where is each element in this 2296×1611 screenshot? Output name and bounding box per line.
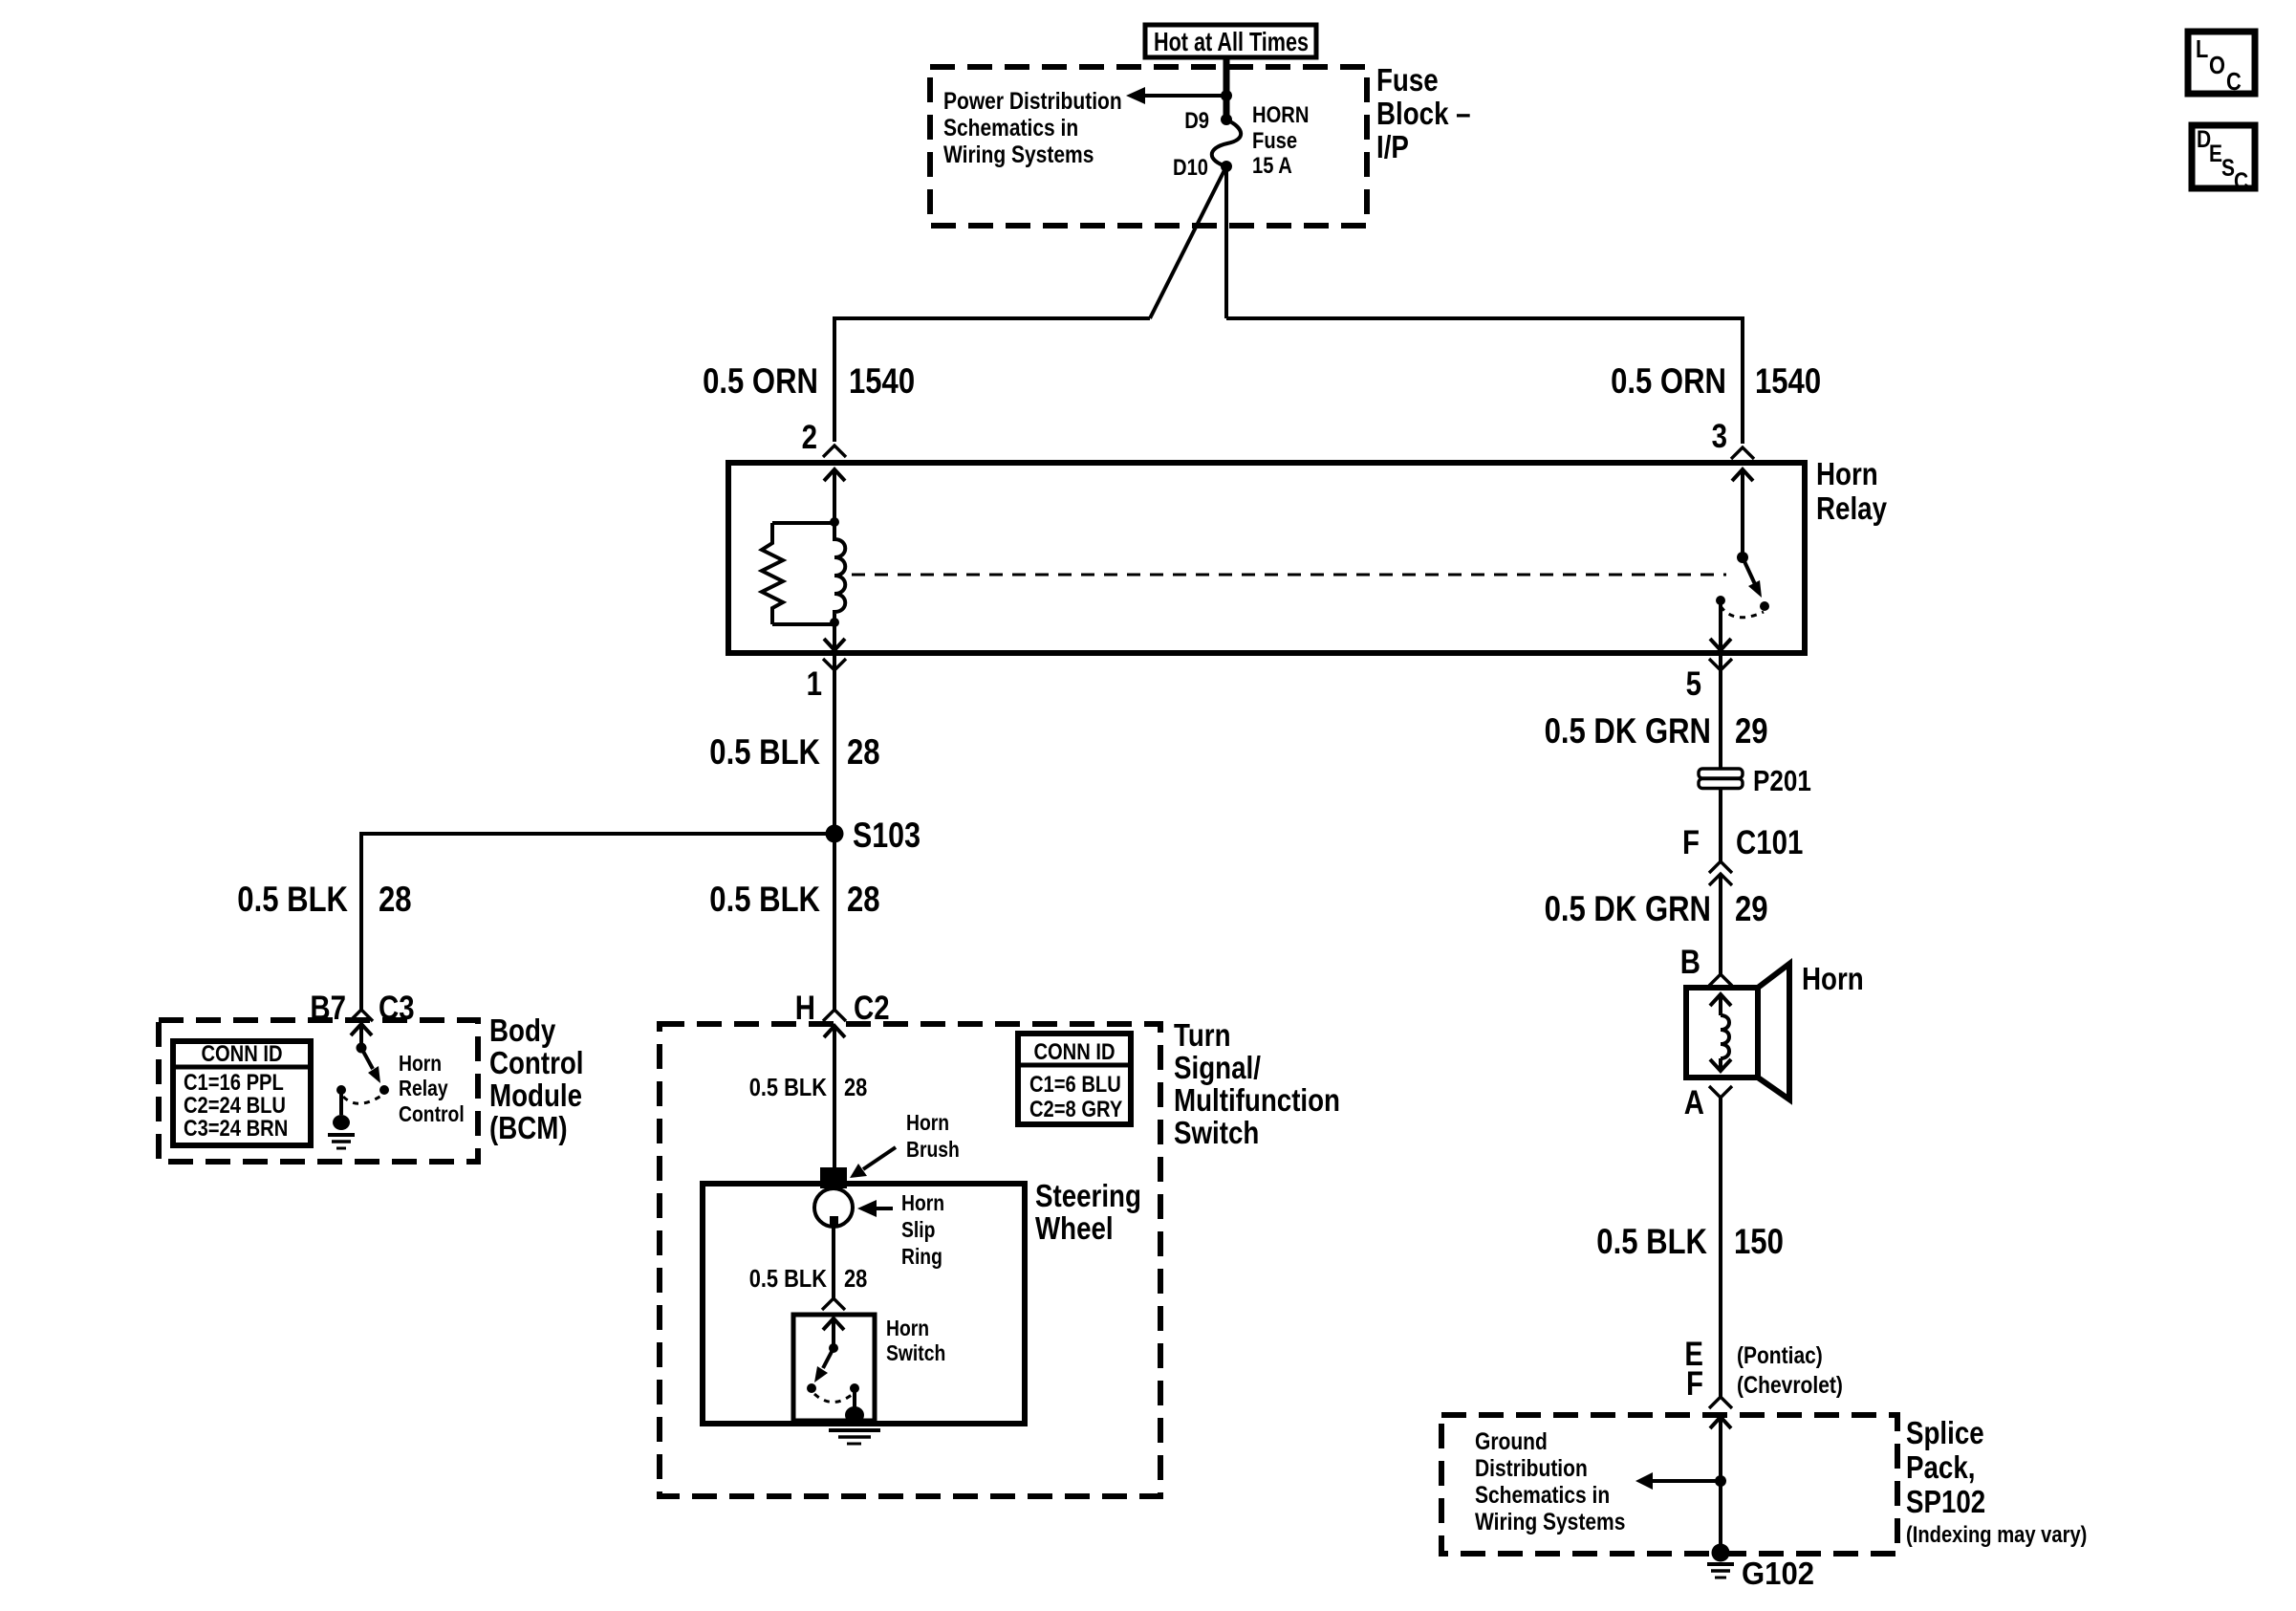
wire label 0.5 BLK 28 (BCM branch) xyxy=(237,880,411,919)
label Turn Signal Multifunction Switch xyxy=(1174,1017,1340,1150)
relay actuation dashed link xyxy=(852,574,1726,577)
value label HORN Fuse 15 A xyxy=(1252,102,1309,179)
svg-text:A: A xyxy=(1684,1084,1704,1121)
svg-text:Distribution: Distribution xyxy=(1475,1455,1588,1482)
svg-text:Signal/: Signal/ xyxy=(1174,1050,1261,1085)
svg-text:S: S xyxy=(2221,155,2235,182)
horn switch input arrow (up) xyxy=(823,1318,844,1348)
wire P201 to C101 xyxy=(1719,790,1722,861)
node relay switch arm contact xyxy=(1760,601,1769,611)
svg-text:Ground: Ground xyxy=(1475,1428,1548,1455)
relay switch terminal arrow (pin 3, up) xyxy=(1732,469,1753,557)
svg-text:(BCM): (BCM) xyxy=(489,1110,568,1145)
annotation arrow to horn brush xyxy=(850,1147,896,1178)
svg-text:Wiring Systems: Wiring Systems xyxy=(1475,1509,1625,1535)
resistor (relay coil suppression) xyxy=(762,523,783,624)
svg-text:28: 28 xyxy=(847,880,880,919)
svg-text:5: 5 xyxy=(1686,665,1701,703)
svg-text:Horn: Horn xyxy=(1802,961,1864,996)
wire to ground distribution (arrow left) xyxy=(1635,1472,1721,1490)
svg-text:150: 150 xyxy=(1734,1222,1784,1261)
svg-text:Multifunction: Multifunction xyxy=(1174,1082,1340,1118)
svg-text:S103: S103 xyxy=(853,816,921,855)
BCM switch rest-position dashed arc xyxy=(343,1096,381,1103)
wire relay pin 5 down to P201 xyxy=(1719,653,1722,770)
svg-text:Switch: Switch xyxy=(886,1340,945,1365)
label Power Distribution Schematics in Wiring Systems xyxy=(943,88,1122,168)
wire slip ring to horn switch xyxy=(832,1227,835,1300)
node relay switch fixed contact xyxy=(1716,596,1725,605)
node horn switch pivot xyxy=(829,1343,838,1353)
LOC reference box xyxy=(2188,32,2255,96)
svg-text:0.5 ORN: 0.5 ORN xyxy=(703,361,818,401)
relay switch movable arm xyxy=(1743,557,1762,598)
wire to power distribution (arrow left) xyxy=(1126,87,1226,104)
fuse HORN Fuse 15 A (S-curve element) xyxy=(1212,120,1241,166)
node horn switch fixed contact xyxy=(850,1383,859,1393)
svg-text:D10: D10 xyxy=(1173,155,1208,181)
svg-text:I/P: I/P xyxy=(1376,129,1409,164)
wire label 0.5 DK GRN 29 (upper) xyxy=(1545,711,1768,751)
wire horizontal feed to relay pin 2 xyxy=(834,318,1150,442)
svg-text:Wiring Systems: Wiring Systems xyxy=(943,142,1094,168)
Fuse Block - I/P dashed enclosure xyxy=(930,67,1367,226)
svg-text:0.5 BLK: 0.5 BLK xyxy=(749,1073,827,1101)
svg-text:Horn: Horn xyxy=(399,1051,442,1076)
svg-text:Fuse: Fuse xyxy=(1376,62,1439,98)
svg-text:C: C xyxy=(2234,168,2248,195)
svg-text:28: 28 xyxy=(844,1264,867,1293)
svg-text:C2=8 GRY: C2=8 GRY xyxy=(1029,1097,1122,1122)
svg-text:0.5 BLK: 0.5 BLK xyxy=(1596,1222,1707,1261)
ground G102 xyxy=(1707,1544,1734,1578)
node D10 xyxy=(1221,161,1232,172)
svg-text:0.5 BLK: 0.5 BLK xyxy=(709,732,820,772)
label Body Control Module (BCM) xyxy=(489,1012,584,1145)
svg-text:(Chevrolet): (Chevrolet) xyxy=(1737,1372,1843,1399)
svg-text:0.5 ORN: 0.5 ORN xyxy=(1611,361,1726,401)
svg-text:C3=24 BRN: C3=24 BRN xyxy=(184,1116,288,1142)
wire label 0.5 BLK 28 (pin 1) xyxy=(709,732,879,772)
label Steering Wheel xyxy=(1035,1178,1141,1246)
switch input arrow (up) xyxy=(824,1026,845,1167)
svg-text:0.5 BLK: 0.5 BLK xyxy=(237,880,348,919)
svg-text:Horn: Horn xyxy=(886,1316,929,1340)
wire relay pin 1 down to S103 and on to H C2 xyxy=(833,653,836,1012)
svg-text:29: 29 xyxy=(1735,711,1768,751)
node splice junction xyxy=(1715,1475,1726,1487)
horn switch movable arm xyxy=(814,1348,834,1382)
connector chevron pin 1 xyxy=(823,659,846,670)
svg-text:C101: C101 xyxy=(1736,824,1803,861)
svg-text:28: 28 xyxy=(847,732,880,772)
svg-text:C2=24 BLU: C2=24 BLU xyxy=(184,1093,286,1119)
horn switch box xyxy=(793,1315,875,1421)
svg-text:L: L xyxy=(2196,34,2208,63)
connector chevron E F xyxy=(1709,1397,1732,1408)
svg-text:F: F xyxy=(1686,1365,1703,1403)
wire C101 down to horn xyxy=(1719,874,1722,974)
svg-text:1: 1 xyxy=(807,665,822,703)
svg-text:C1=16 PPL: C1=16 PPL xyxy=(184,1070,284,1096)
horn speaker flare xyxy=(1758,964,1789,1099)
CONN ID table (BCM) xyxy=(173,1041,311,1145)
svg-text:Horn: Horn xyxy=(906,1110,949,1135)
wire branch S103 to BCM xyxy=(361,834,834,1012)
wire resistor bottom branch xyxy=(772,622,834,626)
svg-text:C1=6 BLU: C1=6 BLU xyxy=(1029,1072,1121,1098)
relay coil terminal arrow (pin 2, up) xyxy=(824,469,845,523)
svg-text:Power Distribution: Power Distribution xyxy=(943,88,1122,115)
svg-text:Control: Control xyxy=(489,1045,584,1080)
connector chevron pin 3 xyxy=(1731,447,1754,459)
svg-text:28: 28 xyxy=(379,880,412,919)
svg-text:Brush: Brush xyxy=(906,1137,960,1162)
svg-text:2: 2 xyxy=(802,419,817,456)
connector chevron pin 5 xyxy=(1709,659,1732,670)
svg-text:Turn: Turn xyxy=(1174,1017,1231,1053)
svg-text:G102: G102 xyxy=(1742,1556,1814,1591)
connector chevron B7 C3 xyxy=(350,1010,373,1021)
svg-text:E: E xyxy=(2209,141,2222,167)
svg-text:(Indexing may vary): (Indexing may vary) xyxy=(1906,1522,2087,1548)
wire label 0.5 BLK 150 xyxy=(1596,1222,1784,1261)
connector chevron horn pin A xyxy=(1709,1086,1732,1098)
svg-text:Hot at All Times: Hot at All Times xyxy=(1154,27,1309,56)
wire resistor top branch xyxy=(772,521,834,525)
horn brush contact block xyxy=(820,1167,847,1188)
svg-text:SP102: SP102 xyxy=(1906,1484,1985,1519)
label Ground Distribution Schematics in Wiring Systems xyxy=(1475,1428,1625,1535)
wire diagonal from D10 to left feed xyxy=(1150,166,1226,318)
connector chevron C101 (double) xyxy=(1709,861,1732,885)
wire label 0.5 BLK 28 (above brush) xyxy=(749,1073,868,1101)
svg-text:1540: 1540 xyxy=(849,361,915,401)
wire label 0.5 ORN 1540 (right) xyxy=(1611,361,1821,401)
svg-text:Horn: Horn xyxy=(1816,456,1878,491)
node relay switch pivot xyxy=(1737,552,1748,563)
node junction at arrow branch xyxy=(1221,90,1232,101)
label Fuse Block - I/P xyxy=(1376,62,1471,164)
node BCM ground contact xyxy=(336,1085,346,1095)
transistor switch arm (horn relay control driver) xyxy=(361,1048,380,1083)
steering wheel box xyxy=(703,1184,1025,1424)
connector chevron pin 2 xyxy=(823,446,846,457)
horn switch rest-position dashed arc xyxy=(814,1394,853,1403)
horn internal coil with arrows xyxy=(1710,994,1731,1071)
ground (BCM internal) xyxy=(328,1090,355,1148)
svg-text:Body: Body xyxy=(489,1012,556,1048)
svg-text:1540: 1540 xyxy=(1755,361,1821,401)
label Horn Relay Control xyxy=(399,1051,465,1126)
svg-text:C: C xyxy=(2226,67,2242,96)
svg-text:0.5 BLK: 0.5 BLK xyxy=(709,880,820,919)
wire label 0.5 BLK 28 (inside wheel) xyxy=(749,1264,868,1293)
wire label 0.5 BLK 28 (switch branch) xyxy=(709,880,879,919)
svg-text:Switch: Switch xyxy=(1174,1115,1259,1150)
svg-text:Module: Module xyxy=(489,1078,582,1113)
svg-text:Control: Control xyxy=(399,1101,465,1126)
node coil bottom junction xyxy=(830,618,839,627)
connector chevron at horn switch xyxy=(822,1298,845,1310)
connector chevron H C2 xyxy=(823,1010,846,1021)
svg-text:Ring: Ring xyxy=(901,1244,942,1269)
svg-text:(Pontiac): (Pontiac) xyxy=(1737,1342,1823,1369)
svg-text:0.5 DK GRN: 0.5 DK GRN xyxy=(1545,889,1711,928)
svg-text:29: 29 xyxy=(1735,889,1768,928)
node coil top junction xyxy=(830,517,839,527)
svg-text:3: 3 xyxy=(1712,418,1727,455)
splice input arrow (up) xyxy=(1710,1417,1731,1547)
svg-text:Block –: Block – xyxy=(1376,96,1471,131)
svg-text:Steering: Steering xyxy=(1035,1178,1141,1213)
svg-text:0.5 BLK: 0.5 BLK xyxy=(749,1264,827,1293)
relay Horn Relay box xyxy=(728,463,1805,653)
Hot at All Times banner box xyxy=(1145,25,1316,57)
wire vertical from D10 to right feed xyxy=(1224,166,1228,318)
Turn Signal Multifunction Switch dashed enclosure xyxy=(660,1024,1160,1496)
svg-text:Horn: Horn xyxy=(901,1190,944,1215)
svg-text:P201: P201 xyxy=(1753,764,1811,797)
svg-text:O: O xyxy=(2209,51,2225,79)
label Horn Slip Ring xyxy=(901,1190,944,1269)
wire from Hot at All Times into fuse block xyxy=(1224,57,1230,120)
svg-text:Schematics in: Schematics in xyxy=(943,115,1078,142)
Splice Pack SP102 dashed enclosure xyxy=(1441,1415,1897,1554)
node D9 xyxy=(1221,114,1232,125)
node horn switch arm contact xyxy=(807,1383,816,1393)
svg-text:B: B xyxy=(1680,944,1700,981)
node S103 splice xyxy=(826,825,844,843)
label Horn Switch xyxy=(886,1316,945,1365)
svg-text:Slip: Slip xyxy=(901,1217,935,1242)
BCM dashed enclosure xyxy=(159,1020,478,1162)
horn slip ring xyxy=(814,1188,853,1227)
node BCM driver pivot xyxy=(357,1043,367,1054)
wire horizontal feed to relay pin 3 xyxy=(1226,318,1743,444)
relay switch terminal arrow (pin 5, down) xyxy=(1710,604,1731,650)
wire horn to splice pack xyxy=(1719,1098,1722,1397)
connector chevron horn pin B xyxy=(1709,974,1732,986)
svg-text:Wheel: Wheel xyxy=(1035,1210,1114,1246)
grommet P201 xyxy=(1699,769,1743,789)
svg-text:0.5 DK GRN: 0.5 DK GRN xyxy=(1545,711,1711,751)
svg-text:Relay: Relay xyxy=(1816,490,1888,526)
wire label 0.5 DK GRN 29 (lower) xyxy=(1545,889,1768,928)
svg-text:CONN ID: CONN ID xyxy=(201,1041,282,1067)
svg-text:Schematics in: Schematics in xyxy=(1475,1482,1610,1509)
svg-text:Fuse: Fuse xyxy=(1252,128,1297,154)
relay switch rest-position dashed arc xyxy=(1721,606,1764,618)
svg-text:D9: D9 xyxy=(1184,108,1209,134)
svg-text:F: F xyxy=(1682,824,1700,861)
svg-text:Splice: Splice xyxy=(1906,1415,1984,1450)
svg-text:Pack,: Pack, xyxy=(1906,1449,1976,1485)
wire label 0.5 ORN 1540 (left) xyxy=(703,361,915,401)
svg-text:15 A: 15 A xyxy=(1252,153,1292,179)
svg-text:HORN: HORN xyxy=(1252,102,1309,128)
CONN ID table (turn signal switch) xyxy=(1018,1034,1131,1124)
label Horn Brush xyxy=(906,1110,960,1162)
svg-text:CONN ID: CONN ID xyxy=(1033,1039,1115,1065)
annotation arrow to slip ring xyxy=(857,1200,893,1217)
horn component box xyxy=(1686,988,1758,1078)
ground (horn switch) xyxy=(829,1388,880,1444)
BCM input arrow (up) xyxy=(351,1024,372,1048)
svg-text:28: 28 xyxy=(844,1073,867,1101)
DESC reference box xyxy=(2192,125,2255,195)
label Splice Pack SP102 xyxy=(1906,1415,2087,1548)
label Horn Relay xyxy=(1816,456,1888,526)
node BCM arm contact xyxy=(379,1085,389,1095)
relay coil terminal arrow (pin 1, down) xyxy=(824,624,845,650)
svg-text:Relay: Relay xyxy=(399,1076,448,1100)
inductor relay coil xyxy=(834,523,845,624)
